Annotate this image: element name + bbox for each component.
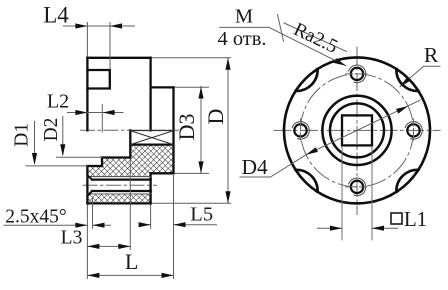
D arrow up [225,58,230,70]
svg-text:L: L [125,249,138,274]
chamfer dim extension line [92,197,94,228]
svg-text:D: D [203,109,228,125]
hole M bottom: thread arc [349,178,366,196]
entry chamfer upper [87,175,92,179]
L extension line right [173,176,175,279]
svg-text:L4: L4 [43,2,69,27]
recess R upper-right [396,69,418,91]
L4 extension line right [109,23,111,70]
L2 extension line [101,105,103,133]
flange right face (upper half) [149,58,151,131]
chamfer arrow left [75,223,87,228]
M leader arrow [334,58,346,66]
svg-text:D3: D3 [174,113,199,140]
R leader [400,66,440,87]
thread minor line upper [92,178,151,180]
hole M top: cross tick [346,73,370,75]
flange left face (upper half) [86,58,88,131]
bolt circle centerline [301,74,414,187]
hole M right: minor circle [407,124,419,136]
counterbore circle D1 [322,96,391,165]
recess upper-left [296,69,318,91]
D extension line top [153,57,231,59]
recess lower-right [396,170,418,192]
horizontal centerline [274,129,440,131]
D3 arrow up [198,87,203,99]
L4 extension line left [86,23,88,57]
square hole bottom flat [130,143,173,145]
square hole [342,115,372,145]
thread major line upper [87,176,150,178]
D2 level line [57,156,103,158]
roughness flag top line [284,23,347,52]
bore D2 bottom edge [102,156,130,158]
R leader arrow [400,77,411,87]
svg-text:M: M [235,5,253,27]
L2 dimension line [68,112,124,114]
left face extension line [86,205,88,279]
recess lower-left [296,170,318,192]
thread minor line lower [92,190,151,192]
svg-text:4 отв.: 4 отв. [217,28,266,50]
svg-text:L5: L5 [190,203,213,225]
square hole edge at axis [130,130,173,132]
L3 dimension line [87,245,130,247]
bore circle D2 [330,103,384,157]
hole M bottom: minor circle [351,181,363,193]
threaded hole axis centerline [83,184,157,186]
flange top edge [87,57,150,59]
face groove rectangle [87,70,109,89]
flat-surface diagonals [130,131,173,145]
D3 arrow down [198,161,203,173]
chamfer arrow right [93,223,105,228]
D1 level line [26,165,87,167]
L5 arrow right [174,222,186,227]
hole M left: cross tick [300,119,302,142]
svg-text:L3: L3 [61,227,83,248]
svg-text:L2: L2 [47,90,69,112]
thread major line lower [87,193,150,195]
D1 arrow [32,153,37,165]
flange bottom edge [87,202,150,204]
roughness flag tick [278,15,284,42]
L1 dimension line right tail [372,227,398,229]
L4 dimension line [64,25,135,27]
D1 leader line [34,122,36,164]
chamfer dim line right [93,224,111,226]
svg-text:2.5x45°: 2.5x45° [5,207,66,228]
L3 extension line right [129,159,131,250]
svg-text:D2: D2 [41,118,62,142]
hole M right: cross tick [413,119,415,142]
square symbol [391,213,402,224]
D3 extension line bottom [176,172,209,174]
L1 extension line right [371,147,373,241]
hatch region: disc material above threaded hole [87,145,173,177]
L3 arrow left [87,244,99,249]
L1 dimension line left tail [318,227,343,229]
L dimension line [87,274,173,276]
L1 extension line left [341,147,343,241]
outer rim circle with recesses [284,57,430,203]
L4 arrow right [110,23,122,28]
D3 dimension line [200,87,202,174]
L arrow right [162,273,174,278]
D arrow down [225,191,230,203]
svg-text:L1: L1 [404,207,427,231]
D dimension line [227,58,229,204]
L3 arrow right [118,244,130,249]
L2 arrow right [103,110,115,115]
D4 dimension line [240,100,420,177]
L1 arrow right [372,226,384,231]
L2 arrow left [75,110,87,115]
hub bottom edge [151,172,174,174]
L5 arrow left [139,222,151,227]
L5 dimension line left tail [140,224,151,226]
hole M bottom: cross tick [346,186,370,188]
svg-text:D1: D1 [12,123,33,147]
svg-text:D4: D4 [241,155,268,179]
L4 arrow left [75,23,87,28]
D extension line bottom [153,202,231,204]
hub right face [172,87,174,173]
M label shelf [220,26,269,28]
hole M right: thread arc [405,122,422,140]
D2 arrow [60,144,65,156]
hole M left: minor circle [294,124,306,136]
chamfer dim line left [4,224,87,226]
counterbore D1 bottom edge [87,165,102,167]
vertical centerline [356,47,358,215]
hole M left: thread arc [292,122,309,140]
svg-text:R: R [424,43,439,67]
L5 extension line left [150,205,152,228]
entry chamfer lower [87,191,92,196]
L1 arrow left [330,226,342,231]
M leader slant [269,27,346,65]
D4 arrow lower-left [306,147,318,155]
L arrow left [87,273,99,278]
step between D1 and D2 [101,158,103,167]
hole M top: minor circle [351,68,363,80]
D2 leader line [62,117,64,155]
hub top edge [151,86,174,88]
part axis centerline [81,129,179,131]
hatch region: disc material below threaded hole [87,194,150,203]
flange right face (lower half) [149,173,151,203]
D3 extension line top [176,86,209,88]
hole M top: thread arc [349,65,366,83]
D4 arrow upper-right [396,106,408,114]
flange left face (lower half) [86,166,88,203]
face between bore D2 and square hole [129,130,131,157]
L5 dimension line right tail [174,224,217,226]
